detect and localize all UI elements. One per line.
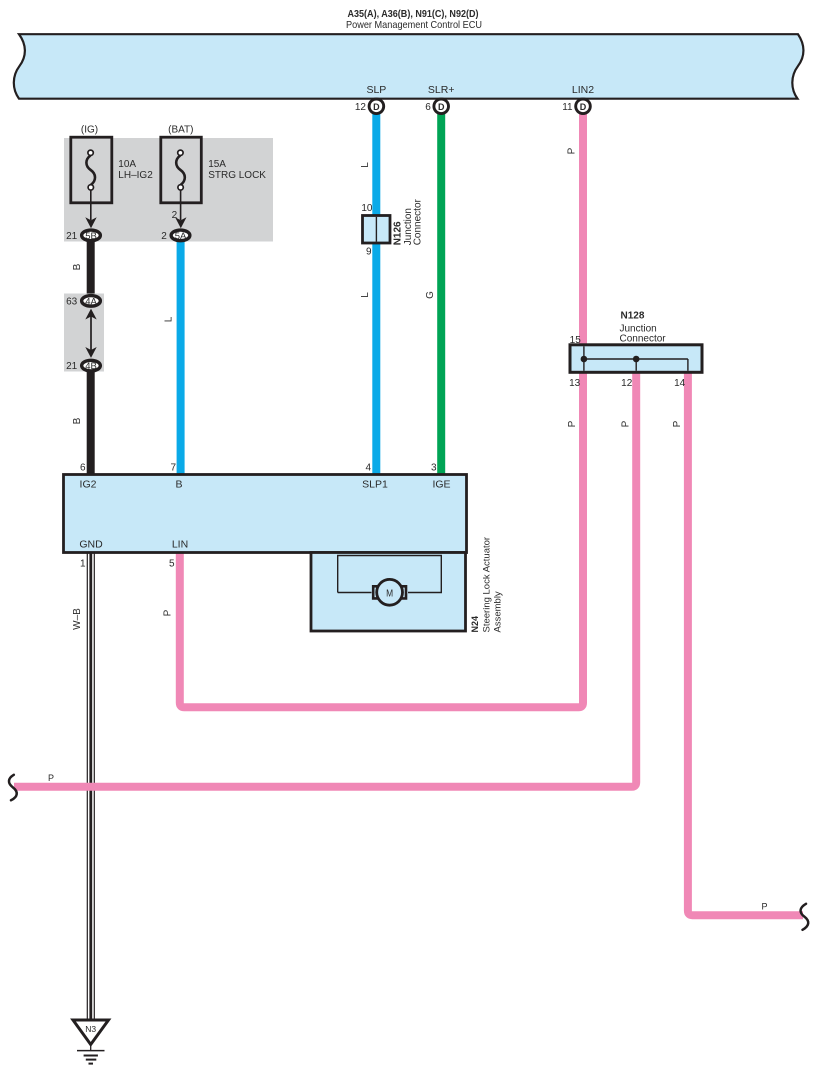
svg-text:63: 63 [66,296,78,307]
svg-text:5A: 5A [175,231,187,242]
fuse block gray box [64,138,273,242]
svg-text:SLP: SLP [366,84,386,96]
break symbol left [9,775,17,801]
svg-text:L: L [360,292,371,298]
svg-text:4B: 4B [85,361,97,372]
svg-text:15: 15 [570,335,582,346]
svg-text:2: 2 [172,210,178,221]
wire L blue SLP to pin4 [372,112,380,476]
svg-text:P: P [761,901,767,911]
svg-text:SLR+: SLR+ [428,84,455,96]
wire P pink N128 pin12 to left break [14,371,636,787]
wire P pink LIN2 to N128 pin15 [579,112,587,347]
connector oval 5A pin 2 [161,230,190,242]
pin 6 D connector SLR+ [425,99,448,114]
svg-text:G: G [425,291,436,299]
label N24 Steering Lock Actuator Assembly [470,537,503,633]
connector oval 4B pin 21 [66,360,100,372]
junction connector N128 [570,345,702,373]
svg-text:B: B [175,479,182,491]
junction connector N126 [363,216,391,244]
actuator lower extension box [311,553,466,632]
svg-text:L: L [360,162,371,168]
svg-text:6: 6 [80,463,86,474]
wire L blue 5A to pin7 [177,240,185,476]
relay block gray box 4A/4B [64,294,104,372]
svg-text:(IG): (IG) [81,124,98,135]
svg-text:11: 11 [562,102,573,113]
svg-text:12: 12 [621,378,633,389]
svg-text:N126: N126 [393,221,404,245]
svg-text:3: 3 [431,463,437,474]
svg-text:STRG LOCK: STRG LOCK [208,170,266,181]
svg-text:5: 5 [169,559,175,570]
svg-text:D: D [373,102,380,112]
svg-text:D: D [438,102,445,112]
svg-text:Power Management Control ECU: Power Management Control ECU [346,19,482,31]
svg-text:N3: N3 [85,1024,96,1034]
fuse F2 15A STRG LOCK [161,137,202,203]
svg-text:7: 7 [170,463,176,474]
wire P pink LIN pin5 to N128 pin13 [180,371,583,707]
double arrow between 4A and 4B [85,309,96,358]
svg-text:IG2: IG2 [80,479,97,491]
svg-text:14: 14 [674,378,686,389]
svg-text:21: 21 [66,361,78,372]
wire W-B pin1 to ground N3 [87,552,94,1020]
break symbol right [801,904,809,930]
svg-text:D: D [580,102,587,112]
arrow fuse F2 to 5A [172,190,187,228]
steering lock actuator main box [64,475,467,553]
svg-text:GND: GND [79,539,103,551]
svg-text:4: 4 [365,463,371,474]
connector oval 5B pin 21 [66,230,100,242]
svg-text:1: 1 [80,559,86,570]
wire G green SLR+ to pin3 [437,112,445,476]
svg-text:4A: 4A [85,296,97,307]
svg-text:(BAT): (BAT) [168,124,193,135]
svg-text:B: B [72,417,83,424]
svg-text:2: 2 [161,231,167,242]
svg-text:N128: N128 [621,311,645,322]
label N126 Junction Connector [393,198,424,245]
svg-text:P: P [567,420,578,427]
pin 11 D connector LIN2 [562,99,590,114]
svg-text:W–B: W–B [72,608,83,630]
svg-text:15A: 15A [208,159,226,170]
svg-text:LIN: LIN [172,539,188,551]
svg-text:SLP1: SLP1 [362,479,388,491]
fuse F1 10A LH-IG2 [71,137,112,203]
svg-text:13: 13 [569,378,581,389]
ground N3 triangle [73,1020,109,1045]
svg-text:N24: N24 [470,616,480,633]
svg-text:P: P [163,609,174,616]
svg-text:P: P [620,420,631,427]
wire P pink N128 pin14 to right break [688,371,803,915]
svg-text:9: 9 [366,247,372,258]
svg-text:21: 21 [66,231,78,242]
svg-text:Connector: Connector [413,198,424,245]
wire B black 5B to pin6 [87,240,95,476]
svg-text:P: P [567,147,578,154]
motor circuit loop [338,556,442,593]
svg-text:B: B [72,263,83,270]
label N128 Junction Connector [620,311,667,345]
ground earth symbol [77,1045,105,1064]
svg-text:Steering Lock Actuator: Steering Lock Actuator [481,537,492,633]
svg-text:IGE: IGE [432,479,450,491]
svg-text:M: M [386,588,393,600]
svg-text:5B: 5B [85,231,97,242]
svg-text:P: P [672,420,683,427]
motor M [373,579,406,605]
svg-text:Connector: Connector [620,333,667,344]
svg-text:L: L [164,316,175,322]
svg-text:12: 12 [355,102,367,113]
pin 12 D connector SLP [355,99,384,114]
arrow fuse F1 to 5B [85,190,96,228]
svg-text:10: 10 [361,203,373,214]
svg-text:10A: 10A [118,159,136,170]
svg-text:LIN2: LIN2 [572,84,594,96]
svg-text:LH–IG2: LH–IG2 [118,170,153,181]
svg-text:6: 6 [425,102,431,113]
ECU band A35/A36/N91/N92 [14,34,804,99]
connector oval 4A pin 63 [66,296,100,308]
svg-text:P: P [48,773,54,783]
svg-text:Assembly: Assembly [492,591,503,632]
